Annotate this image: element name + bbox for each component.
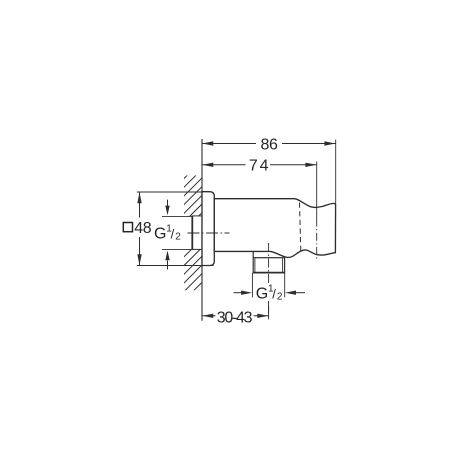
svg-text:/: /	[171, 226, 175, 241]
dimension 30-43	[202, 301, 269, 327]
wall hole for inlet	[183, 216, 202, 249]
wall surface line	[201, 139, 203, 321]
wall hatching	[165, 148, 215, 363]
outlet nut	[253, 258, 285, 273]
inlet connector behind wall	[192, 216, 202, 250]
svg-text:G: G	[154, 225, 166, 242]
dimension 74	[202, 157, 317, 174]
hidden edge dashed line on knob	[300, 203, 301, 253]
outlet centerline	[268, 243, 270, 319]
svg-text:2: 2	[277, 292, 283, 303]
svg-text:G: G	[256, 286, 268, 303]
fixture axis centerline	[188, 232, 230, 234]
86 extension line right	[335, 140, 337, 205]
svg-text:/: /	[272, 287, 276, 302]
svg-text:74: 74	[249, 157, 270, 174]
svg-text:2: 2	[175, 231, 181, 242]
left G 1/2 label and arrows	[154, 200, 192, 270]
body and holder knob outline	[214, 199, 335, 258]
knob centerline (74 extension)	[316, 162, 318, 219]
svg-text:30-43: 30-43	[217, 310, 253, 327]
square-48 dimension	[122, 192, 214, 266]
escutcheon wall plate	[202, 192, 214, 266]
outlet boss left edge	[252, 251, 254, 257]
svg-text:48: 48	[134, 220, 151, 237]
bottom G 1/2 dimension	[234, 273, 306, 303]
svg-text:86: 86	[261, 137, 278, 154]
dimension 86	[202, 137, 336, 154]
